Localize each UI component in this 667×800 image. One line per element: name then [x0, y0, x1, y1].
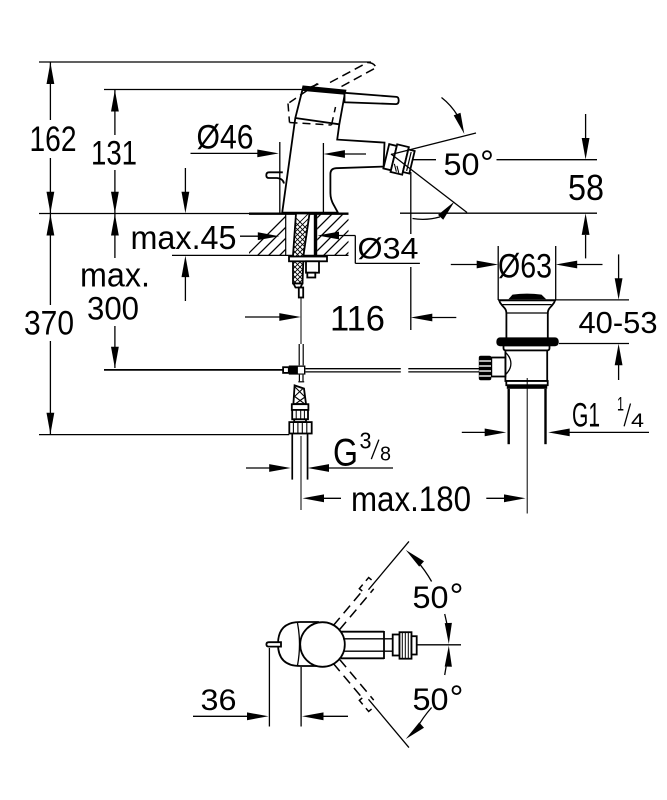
dimension max.300 line: [111, 214, 119, 368]
tailpipe walls: [508, 389, 510, 444]
svg-text:36: 36: [201, 684, 237, 717]
threaded shank in deck hole with diamond hatch: [288, 210, 312, 314]
370 bottom reference line: [39, 434, 289, 436]
faucet body solid (white fill): [282, 86, 384, 212]
svg-text:max.180: max.180: [351, 480, 471, 519]
dimension Ø63: [451, 246, 603, 300]
aerator top view: [393, 632, 417, 659]
body end arc: [298, 623, 300, 666]
pop-up pull rod in hole (dark bar): [314, 214, 317, 256]
label Ø46 with leader: [191, 119, 367, 214]
valve knurled knob: [479, 356, 492, 381]
supply nut stage1: [292, 404, 309, 410]
horizontal rod right segment 2 (after break): [408, 369, 479, 372]
head top dark band: [302, 86, 345, 95]
pop-up rod pin top view: [266, 642, 281, 646]
valve body: [505, 350, 547, 381]
dimension 131 line: [111, 90, 119, 213]
flange under seal: [504, 346, 550, 351]
drain pop-up waste: dome cap: [508, 294, 546, 300]
seal ring black: [496, 337, 558, 346]
threaded adapter with X hatch: [293, 385, 306, 404]
pop-up rod tab on body left: [266, 172, 284, 183]
50 deg arc upper with arrowhead: [442, 98, 458, 116]
pull rod above coupling: [299, 344, 303, 365]
horseshoe mounting plate: [289, 257, 327, 262]
dimension 40-53: [556, 254, 658, 380]
pull rod lower segment: [299, 288, 303, 298]
lower 50 arc segments with arrowheads: [445, 660, 448, 676]
Ø46 right arrow: [339, 153, 366, 155]
svg-text:50: 50: [444, 146, 480, 182]
spray angle lower line: [391, 154, 467, 213]
rod coupling block: [283, 366, 305, 375]
supply pipe walls: [291, 434, 308, 480]
label Ø34 with stepped leader: [318, 232, 420, 266]
svg-text:370: 370: [24, 305, 74, 343]
deck hole left edge: [285, 214, 287, 256]
dimension 370 line: [47, 214, 55, 434]
drain cap top line: [498, 299, 556, 301]
svg-text:Ø46: Ø46: [197, 119, 254, 157]
svg-text:162: 162: [30, 120, 77, 159]
top reference line (lever raised height): [39, 61, 371, 63]
valve sleeve: [491, 358, 505, 377]
horizontal rod right segment 1: [305, 369, 400, 372]
dimension 36: [193, 648, 348, 727]
drain body bottom ring: [505, 380, 547, 382]
dimension 116: [245, 172, 456, 339]
svg-text:131: 131: [91, 135, 137, 173]
svg-text:40-53: 40-53: [579, 305, 658, 340]
svg-text:1: 1: [617, 395, 624, 416]
svg-text:3: 3: [360, 428, 372, 454]
left sleeve: [283, 367, 289, 373]
top view body stadium: [278, 622, 318, 666]
svg-text:°: °: [480, 144, 494, 183]
dimension G3/8: [246, 428, 393, 475]
centerline right of aerator: [417, 644, 461, 646]
second reference line (lever horizontal height): [104, 89, 304, 91]
deck hatched block: [39, 210, 597, 262]
max.45 leader arrow: [240, 232, 279, 240]
50 deg arc lower with arrowhead: [413, 217, 441, 219]
valve plug arc inside body: [505, 352, 511, 375]
dimension G1 1/4: [462, 395, 649, 437]
svg-text:max.45: max.45: [131, 219, 237, 256]
svg-text:max.: max.: [80, 257, 150, 295]
deck bottom line: [172, 254, 349, 256]
deck top line: [39, 213, 249, 215]
dashed head tilted ghost: [288, 84, 336, 126]
svg-text:58: 58: [568, 167, 604, 208]
dimension max.180: [303, 480, 526, 519]
drain cap taper: [500, 301, 507, 314]
aerator tilted: [383, 142, 415, 176]
cap inner line: [503, 304, 552, 306]
spray angle upper line: [391, 133, 476, 155]
supply nut stage3: [294, 419, 306, 422]
horizontal pop-up rod left: [104, 369, 283, 371]
neck sides: [505, 313, 507, 338]
ghost spout rotated -50 dashed: [330, 537, 411, 631]
shank taper tip: [294, 284, 303, 288]
drain centerline: [526, 378, 528, 514]
upper 50 arc segments with arrowheads: [417, 560, 432, 581]
spray axis horizontal reference: [413, 159, 436, 161]
rod below coupling: [298, 375, 304, 382]
coupling nut large: [289, 422, 311, 433]
svg-text:Ø34: Ø34: [358, 233, 419, 266]
svg-text:°: °: [450, 679, 464, 718]
svg-text:G1: G1: [572, 396, 600, 434]
svg-text:300: 300: [87, 291, 139, 327]
dimension 162 line: [47, 63, 55, 214]
mounting nut: [306, 261, 319, 272]
faucet centerline below rod: [300, 298, 302, 345]
head circle top view: [300, 622, 345, 667]
svg-text:4: 4: [631, 411, 645, 432]
ghost spout rotated +50 dashed: [330, 659, 411, 753]
svg-text:8: 8: [380, 444, 391, 466]
svg-text:Ø63: Ø63: [498, 248, 552, 286]
supply nut stage2 with facets: [292, 410, 308, 419]
svg-text:50: 50: [413, 681, 449, 717]
spout top view: [341, 631, 393, 659]
neck top line: [506, 312, 547, 314]
svg-text:G: G: [333, 432, 358, 475]
body internal joint line head/body: [295, 118, 339, 124]
drain coupling dark band: [507, 385, 547, 389]
dimension 58: [568, 114, 604, 258]
dimension max.45 vertical arrows: [182, 168, 190, 301]
dashed lever raised ghost: [330, 63, 376, 87]
Ø46 extension lines: [279, 142, 281, 213]
svg-text:°: °: [450, 577, 464, 616]
svg-text:50: 50: [413, 579, 449, 615]
svg-text:116: 116: [330, 300, 385, 339]
solid lever horizontal: [345, 93, 399, 104]
faucet centerline through pipe: [300, 436, 302, 510]
